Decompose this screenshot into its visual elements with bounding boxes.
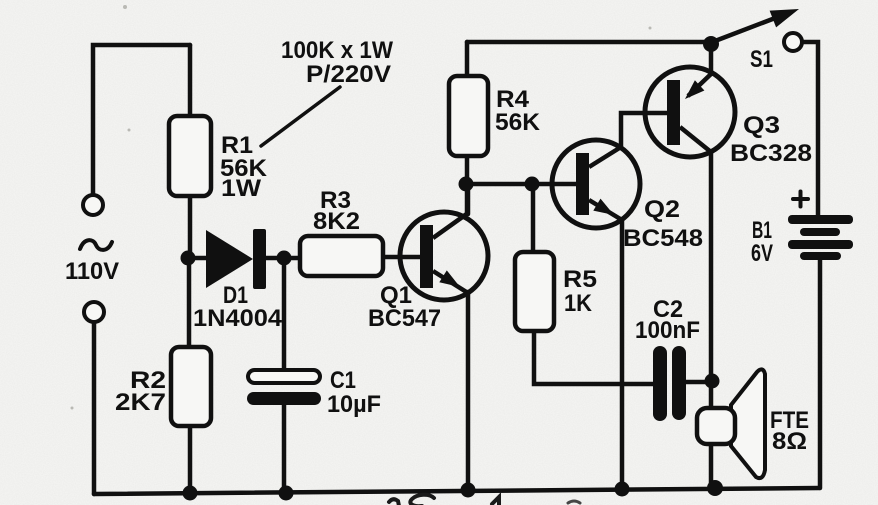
svg-text:10µF: 10µF (327, 391, 381, 418)
svg-text:1N4004: 1N4004 (193, 305, 283, 332)
svg-text:S1: S1 (750, 46, 773, 73)
svg-text:8Ω: 8Ω (772, 428, 807, 455)
svg-text:BC548: BC548 (623, 225, 703, 252)
svg-text:R5: R5 (563, 266, 597, 293)
svg-text:2K7: 2K7 (115, 389, 166, 416)
svg-text:Q3: Q3 (743, 112, 780, 139)
svg-text:C1: C1 (330, 367, 356, 394)
svg-text:110V: 110V (65, 258, 119, 285)
svg-text:P/220V: P/220V (306, 61, 391, 88)
svg-text:8K2: 8K2 (313, 208, 360, 235)
svg-text:BC328: BC328 (730, 140, 812, 167)
svg-text:Q2: Q2 (644, 196, 680, 223)
svg-text:1K: 1K (564, 290, 593, 317)
svg-text:BC547: BC547 (368, 305, 441, 332)
svg-text:100K x 1W: 100K x 1W (281, 37, 393, 64)
svg-text:100nF: 100nF (635, 317, 700, 344)
svg-text:6V: 6V (751, 240, 773, 267)
svg-text:1W: 1W (221, 175, 261, 202)
svg-text:56K: 56K (495, 109, 541, 136)
